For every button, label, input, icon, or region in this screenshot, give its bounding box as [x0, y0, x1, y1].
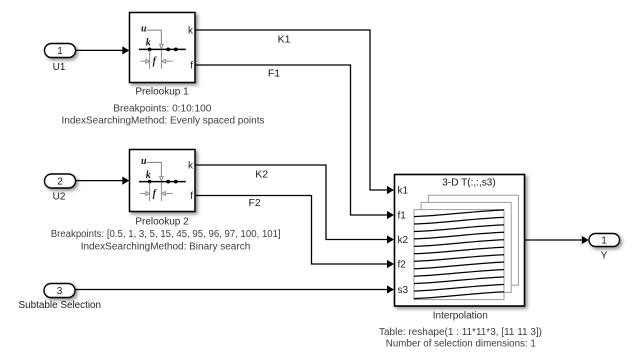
svg-text:3: 3 [57, 286, 63, 297]
svg-text:Subtable Selection: Subtable Selection [19, 300, 102, 311]
wire K1 [195, 30, 394, 194]
outport Y [589, 234, 620, 247]
svg-text:Number of selection dimensions: Number of selection dimensions: 1 [386, 339, 536, 350]
svg-text:s3: s3 [398, 285, 409, 296]
page middle [421, 202, 511, 292]
dim arrow left [140, 60, 146, 62]
inport U1 [45, 44, 76, 58]
svg-text:f1: f1 [398, 211, 407, 222]
table curves [414, 210, 504, 299]
wire s3 [75, 285, 394, 293]
dim arrow right [165, 192, 173, 194]
svg-text:f: f [190, 61, 193, 72]
svg-text:F1: F1 [268, 68, 280, 80]
u line [147, 162, 162, 176]
u down open arrow [160, 44, 164, 48]
wire K2 [195, 165, 394, 244]
wire F2 [195, 196, 394, 269]
wire Y out [525, 236, 589, 244]
u down open arrow [160, 177, 164, 181]
svg-text:k1: k1 [398, 186, 409, 197]
dot 3 [174, 180, 178, 184]
page back [428, 195, 518, 285]
svg-text:Prelookup 2: Prelookup 2 [135, 216, 189, 227]
icon Prelookup 1 [139, 24, 186, 69]
axis [139, 181, 186, 183]
inport 3 Subtable Selection [44, 284, 75, 298]
dot 1 [148, 180, 152, 184]
page front [414, 210, 504, 300]
wire U2 to Prelookup2 [76, 177, 130, 185]
svg-text:u: u [141, 24, 147, 35]
svg-text:1: 1 [57, 46, 63, 57]
svg-text:U2: U2 [53, 192, 66, 203]
dot 1 [148, 48, 152, 52]
svg-text:U1: U1 [53, 62, 66, 73]
svg-text:f: f [190, 191, 193, 202]
svg-text:1: 1 [601, 236, 607, 247]
dim arrow left [140, 192, 146, 194]
svg-text:K1: K1 [278, 34, 291, 46]
block Interpolation [395, 175, 525, 307]
svg-text:Y: Y [601, 251, 608, 262]
svg-text:3-D T(:,:,s3): 3-D T(:,:,s3) [442, 178, 496, 189]
svg-text:k2: k2 [398, 235, 409, 246]
svg-text:Breakpoints: [0.5, 1, 3, 5, 15: Breakpoints: [0.5, 1, 3, 5, 15, 45, 95, … [51, 229, 281, 240]
svg-text:Prelookup 1: Prelookup 1 [135, 86, 189, 97]
svg-text:k: k [146, 170, 151, 181]
svg-text:IndexSearchingMethod: Evenly s: IndexSearchingMethod: Evenly spaced poin… [62, 116, 265, 127]
svg-text:Breakpoints: 0:10:100: Breakpoints: 0:10:100 [113, 103, 211, 114]
u line [147, 30, 162, 44]
vertical guide left [149, 183, 151, 202]
wire U1 to Prelookup1 [76, 46, 130, 54]
vertical guide left [149, 50, 151, 69]
axis [139, 48, 186, 50]
svg-text:F2: F2 [248, 197, 260, 209]
svg-text:Interpolation: Interpolation [433, 311, 488, 322]
dim arrow right [165, 60, 173, 62]
svg-text:2: 2 [57, 177, 63, 188]
svg-text:IndexSearchingMethod: Binary s: IndexSearchingMethod: Binary search [81, 241, 251, 252]
wire F1 [195, 65, 394, 219]
inport U2 [45, 174, 76, 188]
vertical guide right [160, 50, 162, 69]
icon Prelookup 2 [139, 156, 186, 201]
dot 2 [166, 48, 170, 52]
svg-text:Table: reshape(1 : 11*11*3, [1: Table: reshape(1 : 11*11*3, [11 11 3]) [379, 327, 542, 338]
svg-text:u: u [141, 156, 147, 167]
dot 3 [174, 48, 178, 52]
svg-text:k: k [146, 38, 151, 49]
svg-text:K2: K2 [255, 169, 268, 181]
block Prelookup 1 [130, 13, 196, 83]
block Prelookup 2 [130, 150, 196, 212]
dot 2 [166, 180, 170, 184]
vertical guide right [160, 183, 162, 202]
svg-text:f2: f2 [398, 260, 407, 271]
